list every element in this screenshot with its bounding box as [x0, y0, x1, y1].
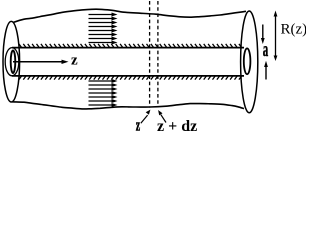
z axis line: [13, 61, 63, 63]
outer tube top boundary: [13, 9, 246, 22]
pointer arrow to z line: [141, 115, 148, 123]
rod top surface line: [12, 47, 244, 49]
rod left end-cap outer ellipse: [5, 48, 19, 76]
dimension R(z) double arrow: [275, 14, 277, 58]
dashed section line at z+dz: [157, 1, 159, 107]
label a: [263, 40, 268, 61]
dimension a up arrow: [265, 66, 267, 80]
dashed section line at z: [149, 1, 151, 108]
dimension a down arrow: [262, 25, 264, 40]
z axis arrowhead: [62, 60, 69, 64]
svg-text:a: a: [263, 40, 268, 61]
rod top hatching: [19, 44, 242, 48]
rod bottom hatching: [19, 76, 242, 80]
velocity arrows lower group: [89, 79, 118, 107]
label z (section): [136, 116, 140, 134]
velocity arrows upper group: [89, 13, 118, 45]
outer tube bottom boundary: [12, 102, 244, 109]
outer tube right end-cap ellipse: [241, 11, 258, 113]
svg-text:z + dz: z + dz: [157, 118, 197, 132]
svg-text:z: z: [136, 116, 140, 132]
svg-text:z: z: [71, 53, 78, 69]
rod right end-cap ellipse: [244, 48, 251, 74]
pointer arrow to z+dz line: [161, 115, 166, 123]
rod bottom surface line: [12, 75, 244, 77]
rod left end-cap inner ellipse: [11, 50, 16, 73]
svg-text:R(z): R(z): [281, 22, 307, 38]
figure: duct of varying radius R(z) with coaxial rod of radius a: [0, 0, 306, 132]
outer tube left end-cap ellipse: [3, 21, 20, 102]
